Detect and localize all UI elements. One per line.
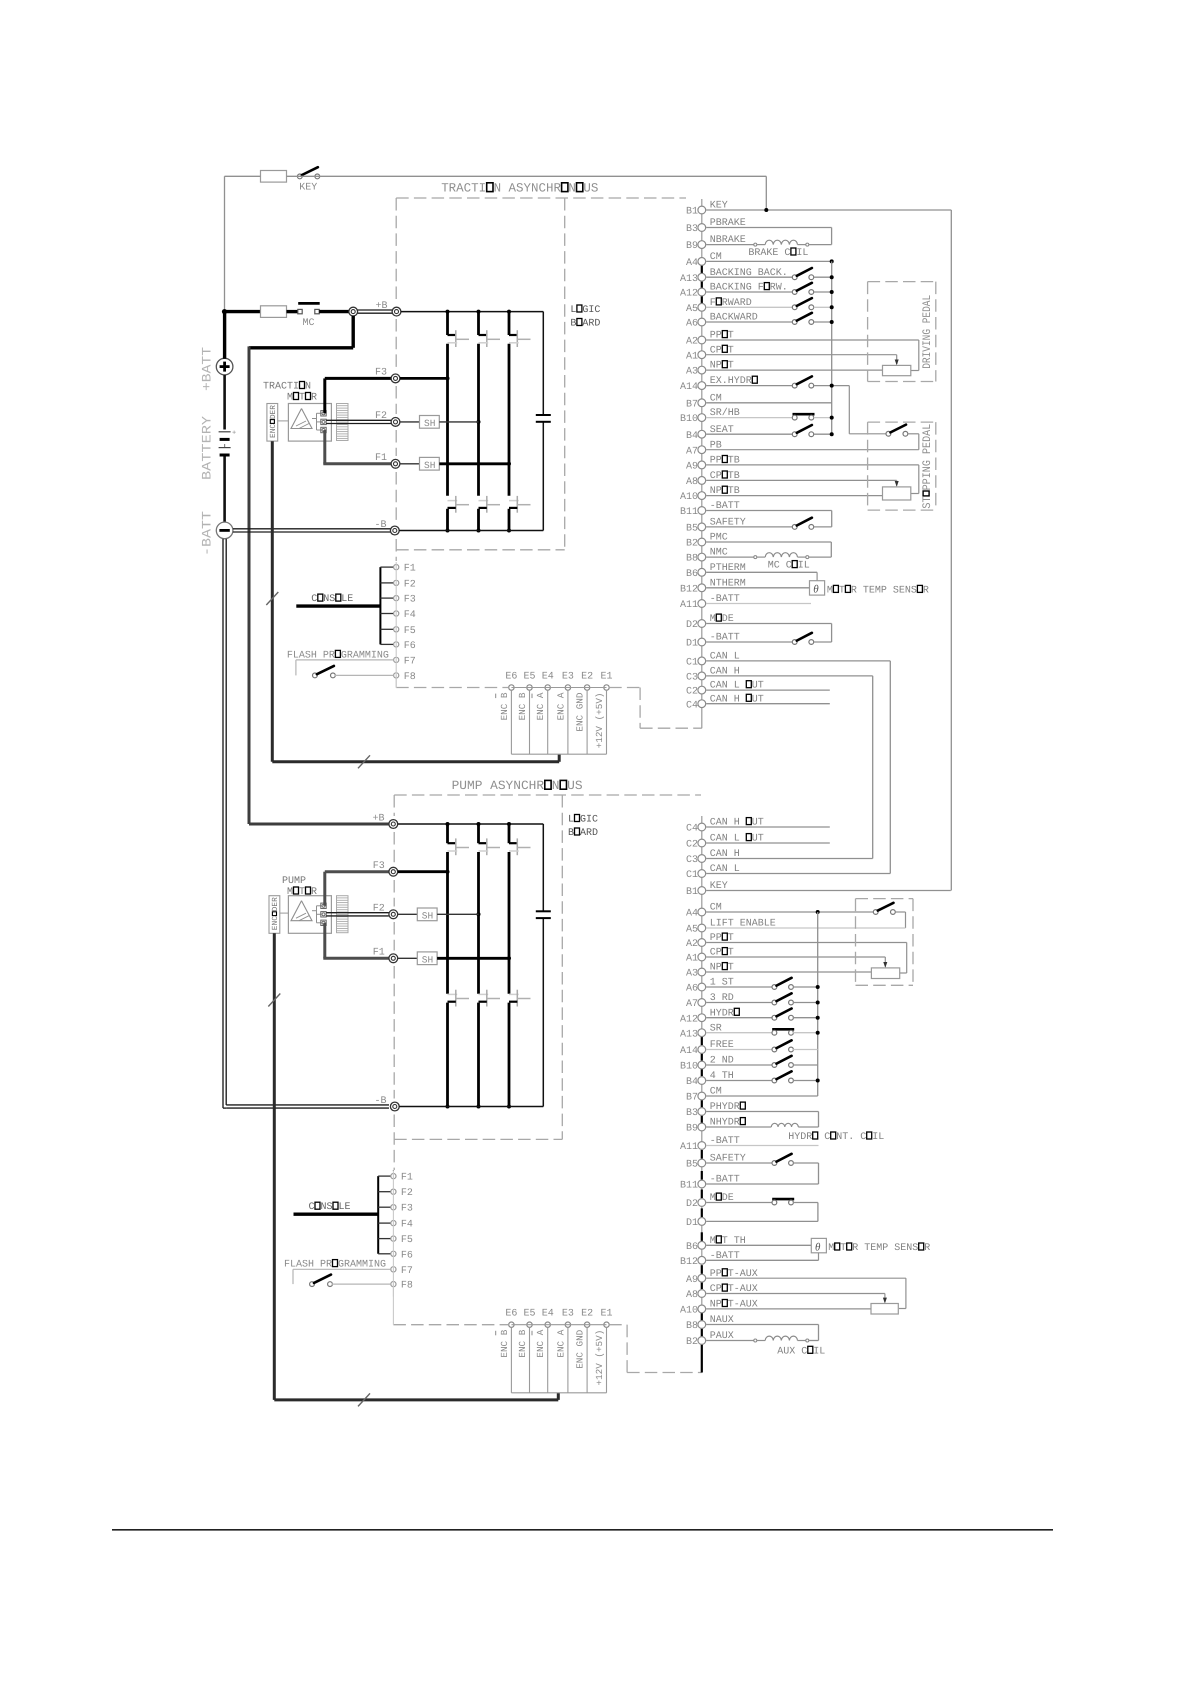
contactor MC — [287, 303, 320, 329]
capacitor dc-link — [536, 415, 551, 422]
svg-text:SH: SH — [424, 418, 435, 429]
wire -B rail — [399, 530, 543, 532]
junction -B bus1 pump — [446, 1105, 450, 1109]
pin E5 pump — [517, 1322, 532, 1393]
junction +B bus3 pump — [507, 822, 511, 826]
pin +B pump — [373, 814, 398, 829]
switch FORWARD — [706, 298, 834, 310]
dashed box DRIVING PEDAL — [868, 282, 936, 382]
transistor bottom leg 1 pump — [448, 990, 470, 1007]
svg-text:B4: B4 — [686, 431, 698, 442]
wire C1 CAN L to pump — [706, 661, 890, 874]
svg-text:F7: F7 — [401, 1266, 413, 1277]
motor box traction — [288, 404, 331, 442]
svg-text:A7: A7 — [686, 446, 698, 457]
pin F1 traction — [375, 453, 400, 468]
svg-text:B7: B7 — [686, 1093, 698, 1104]
wire dashed E pins row pump — [511, 1324, 606, 1326]
pin A3 NPOT traction — [686, 361, 734, 378]
svg-text:L GIC: L GIC — [568, 815, 598, 826]
junction F3 bus1 — [446, 376, 450, 380]
switch stopping pedal brake — [886, 425, 919, 450]
wire A2 PPOT to pedal pot — [706, 340, 919, 371]
svg-text:D1: D1 — [686, 1218, 698, 1229]
junction +B bus2 pump — [477, 822, 481, 826]
svg-text:L GIC: L GIC — [570, 305, 600, 316]
pin B12 NTHERM traction — [680, 578, 746, 595]
transistor bottom leg 2 pump — [479, 990, 501, 1007]
wire battery+ to MC fuse — [225, 312, 261, 359]
wire A2 PPOT pump — [706, 943, 907, 974]
junction F1 bus3 — [507, 462, 511, 466]
wire F2 motor phase hollow pump — [326, 912, 389, 914]
wire console spine to E row traction — [395, 675, 397, 687]
pin F4 traction — [394, 610, 416, 621]
pin F6 traction — [394, 641, 416, 652]
wire F3 motor phase — [325, 378, 391, 413]
potentiometer lift — [871, 968, 899, 979]
wire B12 NTHERM to sensor — [706, 587, 809, 589]
svg-text:A13: A13 — [680, 274, 698, 285]
svg-text:DRIVING PEDAL: DRIVING PEDAL — [921, 295, 934, 369]
svg-text:AUX C IL: AUX C IL — [777, 1346, 825, 1357]
pin F7 traction — [394, 656, 416, 667]
pin A13 SR pump — [680, 1023, 722, 1040]
junction -B bus3 pump — [507, 1105, 511, 1109]
dashed box TRACTION ASYNCHRONOUS — [396, 198, 686, 561]
svg-text:C3: C3 — [686, 673, 698, 684]
svg-text:ENC GND: ENC GND — [575, 692, 586, 731]
pin A10 NPOT-AUX pump — [680, 1300, 758, 1317]
pin A2 PPOT pump — [686, 933, 734, 950]
wire B6 PTHERM to sensor — [706, 572, 817, 580]
wire dc-link right leg pump — [542, 824, 544, 1107]
svg-text:F3: F3 — [404, 595, 416, 606]
svg-text:B1: B1 — [686, 887, 698, 898]
wire A11 -BATT stub — [706, 603, 811, 605]
junction F2 bus2 — [477, 420, 481, 424]
bottom rule — [112, 1529, 1053, 1531]
pin A5 FORWARD traction — [686, 298, 752, 315]
label PUMP MOTOR — [282, 876, 317, 898]
wire key fuse to B1 drop — [287, 176, 767, 210]
wire A9 PPOTB to pot — [706, 465, 919, 494]
wire A4 CM to bus — [706, 259, 834, 263]
wire B3 PHYDRO pump — [706, 1112, 818, 1128]
svg-text:B6: B6 — [686, 569, 698, 580]
wire B1 KEY line — [706, 210, 951, 891]
pin A8 CPOTB traction — [686, 471, 740, 488]
pin A2 PPOT traction — [686, 331, 734, 348]
pin A4 CM pump — [686, 903, 722, 920]
label BATTERY — [200, 416, 215, 480]
svg-text:B ARD: B ARD — [568, 828, 598, 839]
pin F8 traction — [394, 672, 416, 683]
junction +B bus2 — [477, 310, 481, 314]
svg-text:E1: E1 — [601, 672, 613, 683]
pin F2 traction — [375, 411, 400, 426]
wire F1 motor phase pump — [323, 923, 389, 959]
pin C4 CAN H OUT pump — [686, 818, 764, 835]
svg-text:B ARD: B ARD — [570, 319, 600, 330]
svg-text:A9: A9 — [686, 462, 698, 473]
wire CM selector bus — [831, 261, 833, 434]
svg-text:E4: E4 — [542, 672, 554, 683]
svg-text:F6: F6 — [401, 1250, 413, 1261]
wire -B rail pump — [399, 1106, 543, 1108]
wire phase bus W — [508, 312, 511, 531]
capacitor dc-link pump — [536, 911, 551, 918]
battery negative terminal -BATT — [216, 522, 233, 539]
pin B6 PTHERM traction — [686, 563, 746, 580]
wire A10 NPOTB to pot — [706, 495, 882, 497]
junction +B bus3 — [507, 310, 511, 314]
svg-text:B9: B9 — [686, 1124, 698, 1135]
svg-text:B3: B3 — [686, 224, 698, 235]
wire C2 CAN L OUT stub — [706, 689, 830, 691]
pin F3 traction — [394, 595, 416, 606]
svg-text:B1: B1 — [686, 207, 698, 218]
switch MODE pump — [706, 1199, 818, 1221]
wire EX.HYDRO to stopping switch — [849, 386, 886, 434]
wire A3 NPOT to pot — [706, 369, 882, 371]
svg-text:F4: F4 — [401, 1220, 413, 1231]
connector traction bottom edge — [511, 753, 606, 755]
junction -B bus1 — [446, 529, 450, 533]
inductor AUX COIL — [706, 1336, 818, 1342]
wire A3 NPOT pump — [706, 971, 871, 973]
svg-text:PUMP: PUMP — [282, 876, 306, 887]
wire B6 MOT TH pump — [706, 1244, 811, 1246]
pin -B traction — [375, 520, 400, 535]
svg-text:F2: F2 — [401, 1188, 413, 1199]
wire battery internal — [223, 375, 226, 522]
svg-text:F8: F8 — [401, 1281, 413, 1292]
svg-text:ENC A: ENC A — [555, 1329, 566, 1357]
svg-text:A6: A6 — [686, 319, 698, 330]
pin B2 PAUX pump — [686, 1331, 734, 1348]
svg-text:A5: A5 — [686, 304, 698, 315]
pin A12 BACKING FORW. traction — [680, 283, 788, 300]
svg-text:A10: A10 — [680, 1306, 698, 1317]
fuse MC-line — [261, 306, 287, 318]
svg-text:B7: B7 — [686, 399, 698, 410]
svg-text:D1: D1 — [686, 639, 698, 650]
pin F1 traction — [394, 564, 416, 575]
battery positive terminal +BATT — [216, 358, 233, 375]
svg-text:A7: A7 — [686, 999, 698, 1010]
pin B4 SEAT traction — [686, 425, 734, 442]
switch flash programming traction — [296, 660, 394, 678]
wire B2 PMC to coil — [706, 542, 831, 557]
wire F2 motor phase hollow — [326, 419, 391, 421]
wire A11 -BATT stub pump — [706, 1145, 818, 1147]
wire F3 pin to bus pump — [398, 870, 448, 873]
svg-text:A2: A2 — [686, 939, 698, 950]
motor terminal 3 pump — [321, 920, 326, 925]
pin B10 2 ND pump — [680, 1056, 734, 1073]
svg-text:+12V (+5V): +12V (+5V) — [594, 693, 605, 749]
pin E6 traction — [496, 685, 514, 754]
svg-text:SH: SH — [422, 955, 433, 966]
svg-text:B9: B9 — [686, 241, 698, 252]
svg-text:-B: -B — [375, 520, 387, 531]
pin A4 CM traction — [686, 252, 722, 269]
wire dashed console spine pump top — [392, 1170, 394, 1171]
svg-text:B12: B12 — [680, 1257, 698, 1268]
transistor top leg 1 traction — [448, 330, 470, 347]
svg-text:B6: B6 — [686, 1242, 698, 1253]
pin F7 pump — [391, 1266, 413, 1277]
wire SH F1 to bus — [439, 462, 509, 465]
connector pump bottom edge — [511, 1392, 606, 1394]
pin E6 pump — [496, 1322, 514, 1393]
pin A14 FREE pump — [680, 1040, 734, 1057]
switch MODE traction — [706, 633, 831, 645]
pin F1 pump — [391, 1173, 413, 1184]
connector console traction bracket — [380, 567, 393, 644]
transistor top leg 2 traction — [479, 330, 501, 347]
pin A10 NPOTB traction — [680, 486, 740, 503]
switch 2 ND pump — [706, 1056, 818, 1068]
svg-text:A14: A14 — [680, 382, 698, 393]
cable slash mark 1 — [266, 592, 278, 605]
svg-text:B4: B4 — [686, 1077, 698, 1088]
svg-text:BRAKE C IL: BRAKE C IL — [748, 248, 808, 259]
pin F3 pump — [391, 1204, 413, 1215]
svg-text:E5: E5 — [524, 1309, 536, 1320]
pin A14 EX.HYDRO traction — [680, 376, 758, 393]
wire phase bus W pump — [508, 824, 511, 1107]
svg-text:E6: E6 — [505, 1309, 517, 1320]
wire D2 MODE to switch — [706, 624, 831, 643]
cable slash mark 2 — [358, 755, 370, 768]
wire A4 CM with lift switch — [706, 903, 905, 928]
svg-text:A3: A3 — [686, 367, 698, 378]
wire A10 NPOT-AUX pump — [706, 1308, 871, 1310]
pin C3 CAN H pump — [686, 849, 740, 866]
wire A8 CPOTB wiper arrow — [706, 480, 899, 487]
switch SAFETY pump — [706, 1154, 818, 1184]
pin E2 traction — [575, 685, 590, 754]
pin B7 CM pump — [686, 1087, 722, 1104]
wire dashed E1 to connector column traction — [609, 688, 702, 729]
pin E3 traction — [555, 685, 570, 754]
svg-text:A4: A4 — [686, 258, 698, 269]
wire A9 PPOT-AUX pump — [706, 1278, 906, 1308]
dashed box PUMP ASYNCHRONOUS — [394, 795, 701, 1170]
pin A7 3 RD pump — [686, 993, 734, 1010]
svg-text:F3: F3 — [373, 861, 385, 872]
wire C3 CAN H to pump — [706, 676, 873, 859]
transistor bottom leg 3 pump — [509, 990, 531, 1007]
svg-text:F4: F4 — [404, 610, 416, 621]
pin B5 SAFETY pump — [686, 1154, 746, 1171]
svg-text:C4: C4 — [686, 700, 698, 711]
svg-text:B2: B2 — [686, 1337, 698, 1348]
pin D1 pump — [686, 1218, 706, 1230]
switch HYDRO pump — [706, 1009, 820, 1021]
transistor top leg 3 traction — [509, 330, 531, 347]
pin A12 HYDRO pump — [680, 1008, 740, 1025]
svg-text:A11: A11 — [680, 1142, 698, 1153]
switch FREE pump — [706, 1040, 818, 1052]
wire encoder cable traction — [272, 441, 559, 762]
dashed box STOPPING PEDAL — [868, 422, 936, 510]
connector console pump bracket — [378, 1176, 391, 1254]
svg-text:KEY: KEY — [299, 183, 317, 194]
junction +B bus1 — [446, 310, 450, 314]
pin +B traction — [376, 301, 401, 316]
pin F2 pump — [373, 904, 398, 919]
svg-text:+: + — [232, 430, 236, 438]
svg-text:B8: B8 — [686, 1321, 698, 1332]
wire SH F1 to bus pump — [437, 957, 509, 960]
svg-text:+BATT: +BATT — [200, 347, 215, 391]
svg-text:F8: F8 — [404, 672, 416, 683]
motor terminal 2 — [321, 419, 326, 424]
svg-text:B3: B3 — [686, 1108, 698, 1119]
label STOPPING PEDAL — [921, 424, 934, 509]
switch SEAT — [706, 425, 834, 437]
pin B11 -BATT traction — [680, 501, 740, 518]
svg-text:C1: C1 — [686, 658, 698, 669]
pin C1 CAN L pump — [686, 864, 740, 881]
junction +B bus1 pump — [446, 822, 450, 826]
pin A8 CPOT-AUX pump — [686, 1284, 758, 1301]
wire F1 pin to shunt pump — [398, 957, 418, 959]
svg-text:MC: MC — [303, 318, 315, 329]
wire MC to +B terminal — [319, 310, 349, 313]
potentiometer stopping pedal — [883, 487, 911, 500]
pin C3 CAN H traction — [686, 667, 740, 684]
pin F4 pump — [391, 1220, 413, 1231]
svg-text:θ: θ — [815, 1241, 821, 1253]
svg-text:A12: A12 — [680, 1014, 698, 1025]
pin F5 traction — [394, 626, 416, 637]
svg-text:E6: E6 — [505, 672, 517, 683]
wire C2 CAN L OUT stub pump — [706, 842, 830, 844]
pin A13 BACKING BACK. traction — [680, 268, 788, 285]
svg-text:C3: C3 — [686, 855, 698, 866]
svg-text:ENC A: ENC A — [555, 692, 566, 720]
cable slash mark 3 — [268, 994, 280, 1007]
pin F2 traction — [394, 579, 416, 590]
pin C4 CAN H OUT traction — [686, 694, 764, 711]
wire dashed E pins row traction — [511, 687, 606, 689]
svg-text:F2: F2 — [404, 579, 416, 590]
pin A11 -BATT traction — [680, 594, 740, 611]
inductor BRAKE COIL — [706, 240, 831, 246]
pin -B pump — [375, 1096, 400, 1111]
pin B3 PHYDRO pump — [686, 1102, 746, 1119]
pin A5 LIFT ENABLE pump — [686, 919, 776, 936]
svg-text:+B: +B — [376, 301, 388, 312]
battery cell plates — [219, 430, 237, 456]
shunt SH F1 pump — [417, 952, 437, 966]
pin F5 pump — [391, 1235, 413, 1246]
wire phase bus V pump — [477, 824, 480, 1107]
svg-text:TRACTI N: TRACTI N — [263, 382, 311, 393]
motor terminal 3 — [321, 427, 326, 432]
wire key from battery to fuse — [225, 176, 261, 311]
wire C1 CAN L pump — [706, 873, 890, 875]
wire dashed E1 to connector column pump — [609, 1325, 702, 1373]
svg-text:A1: A1 — [686, 351, 698, 362]
svg-text:ENC B: ENC B — [499, 692, 510, 720]
svg-text:ENC B: ENC B — [499, 1329, 510, 1357]
pin B2 PMC traction — [686, 533, 728, 550]
pin F2 pump — [391, 1188, 413, 1199]
wire F2 pin to shunt — [400, 421, 420, 423]
svg-text:E2: E2 — [581, 672, 593, 683]
svg-text:ENC B: ENC B — [517, 692, 528, 720]
svg-text:C2: C2 — [686, 687, 698, 698]
junction F3 bus1 pump — [446, 870, 450, 874]
pin F3 traction — [375, 368, 400, 383]
wire phase bus U pump — [446, 824, 449, 1107]
motor delta winding pump — [291, 901, 312, 921]
svg-text:B11: B11 — [680, 507, 698, 518]
transistor top leg 3 pump — [509, 838, 531, 855]
wire B12 -BATT to sensor pump — [706, 1253, 818, 1261]
connector encoder traction labels — [505, 672, 612, 683]
junction F2 bus2 pump — [477, 912, 481, 916]
pin F6 pump — [391, 1250, 413, 1261]
switch 4 TH pump — [706, 1071, 820, 1083]
svg-text:B8: B8 — [686, 554, 698, 565]
motor brush block — [337, 404, 349, 441]
svg-text:M T R TEMP SENS R: M T R TEMP SENS R — [827, 585, 929, 596]
svg-text:F3: F3 — [401, 1204, 413, 1215]
svg-text:F1: F1 — [373, 948, 385, 959]
fuse key-line — [261, 171, 287, 183]
svg-text:E3: E3 — [562, 672, 574, 683]
pin A7 PB traction — [686, 440, 722, 457]
svg-text:F5: F5 — [404, 626, 416, 637]
wire A8 CPOT-AUX wiper pump — [706, 1294, 887, 1304]
pin B1 KEY pump — [686, 881, 728, 898]
pin D2 MODE traction — [686, 614, 734, 631]
wire console spine to E row pump — [392, 1284, 394, 1325]
label TRACTION MOTOR — [263, 382, 317, 404]
wire F1 motor phase — [323, 430, 391, 464]
wire -BATT hollow to -B pin — [233, 528, 391, 530]
wire SH F2 to bus pump — [437, 913, 478, 915]
shunt SH F2 pump — [417, 908, 437, 922]
svg-text:TRACTI N ASYNCHR N US: TRACTI N ASYNCHR N US — [441, 182, 598, 196]
junction F1 bus3 pump — [507, 956, 511, 960]
cable slash mark 4 — [358, 1393, 370, 1406]
svg-text:A2: A2 — [686, 337, 698, 348]
switch 1 ST pump — [706, 978, 820, 990]
wire B8 NAUX pump — [706, 1325, 818, 1341]
pin E1 traction — [594, 685, 609, 754]
motor box pump — [288, 896, 331, 934]
junction battery/MC — [222, 309, 227, 314]
svg-text:E5: E5 — [524, 672, 536, 683]
pin E1 pump — [594, 1322, 609, 1393]
transistor bottom leg 3 traction — [509, 496, 531, 513]
pin F1 pump — [373, 948, 398, 963]
svg-text:A14: A14 — [680, 1046, 698, 1057]
svg-text:+B: +B — [373, 814, 385, 825]
switch BACKWARD — [706, 313, 834, 325]
junction -B bus2 pump — [477, 1105, 481, 1109]
encoder box traction — [267, 404, 278, 442]
switch SAFETY traction — [706, 518, 832, 530]
pin A3 NPOT pump — [686, 963, 734, 980]
